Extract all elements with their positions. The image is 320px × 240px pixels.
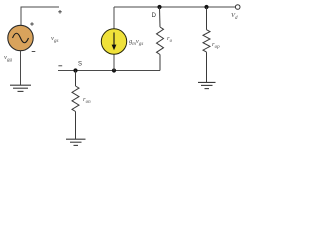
- ground (under ron): [66, 139, 86, 145]
- resistor ron: [72, 71, 79, 140]
- svg-text:S: S: [78, 62, 82, 68]
- label - (vgs minus): [58, 65, 62, 67]
- wire top rail: [114, 6, 235, 8]
- resistor rop: [203, 7, 210, 82]
- voltage source vgg: [8, 25, 33, 50]
- svg-text:D: D: [152, 12, 157, 19]
- wire gate top-left: [21, 7, 59, 26]
- label - of source: [32, 51, 36, 53]
- junction dot S-ron: [73, 68, 77, 72]
- label + of source: [30, 22, 34, 26]
- ground (left): [10, 85, 31, 91]
- ground (under rop): [198, 82, 216, 88]
- node + (gate polarity plus): [58, 10, 62, 14]
- output terminal: [235, 5, 240, 10]
- junction dot S-isource: [112, 68, 116, 72]
- junction dot rop top: [204, 5, 208, 9]
- junction dot D: [157, 5, 161, 9]
- wire S rail: [58, 70, 160, 72]
- resistor ro: [157, 7, 164, 71]
- wire source to ground: [20, 51, 22, 85]
- dependent current source gm*vgs: [101, 7, 126, 71]
